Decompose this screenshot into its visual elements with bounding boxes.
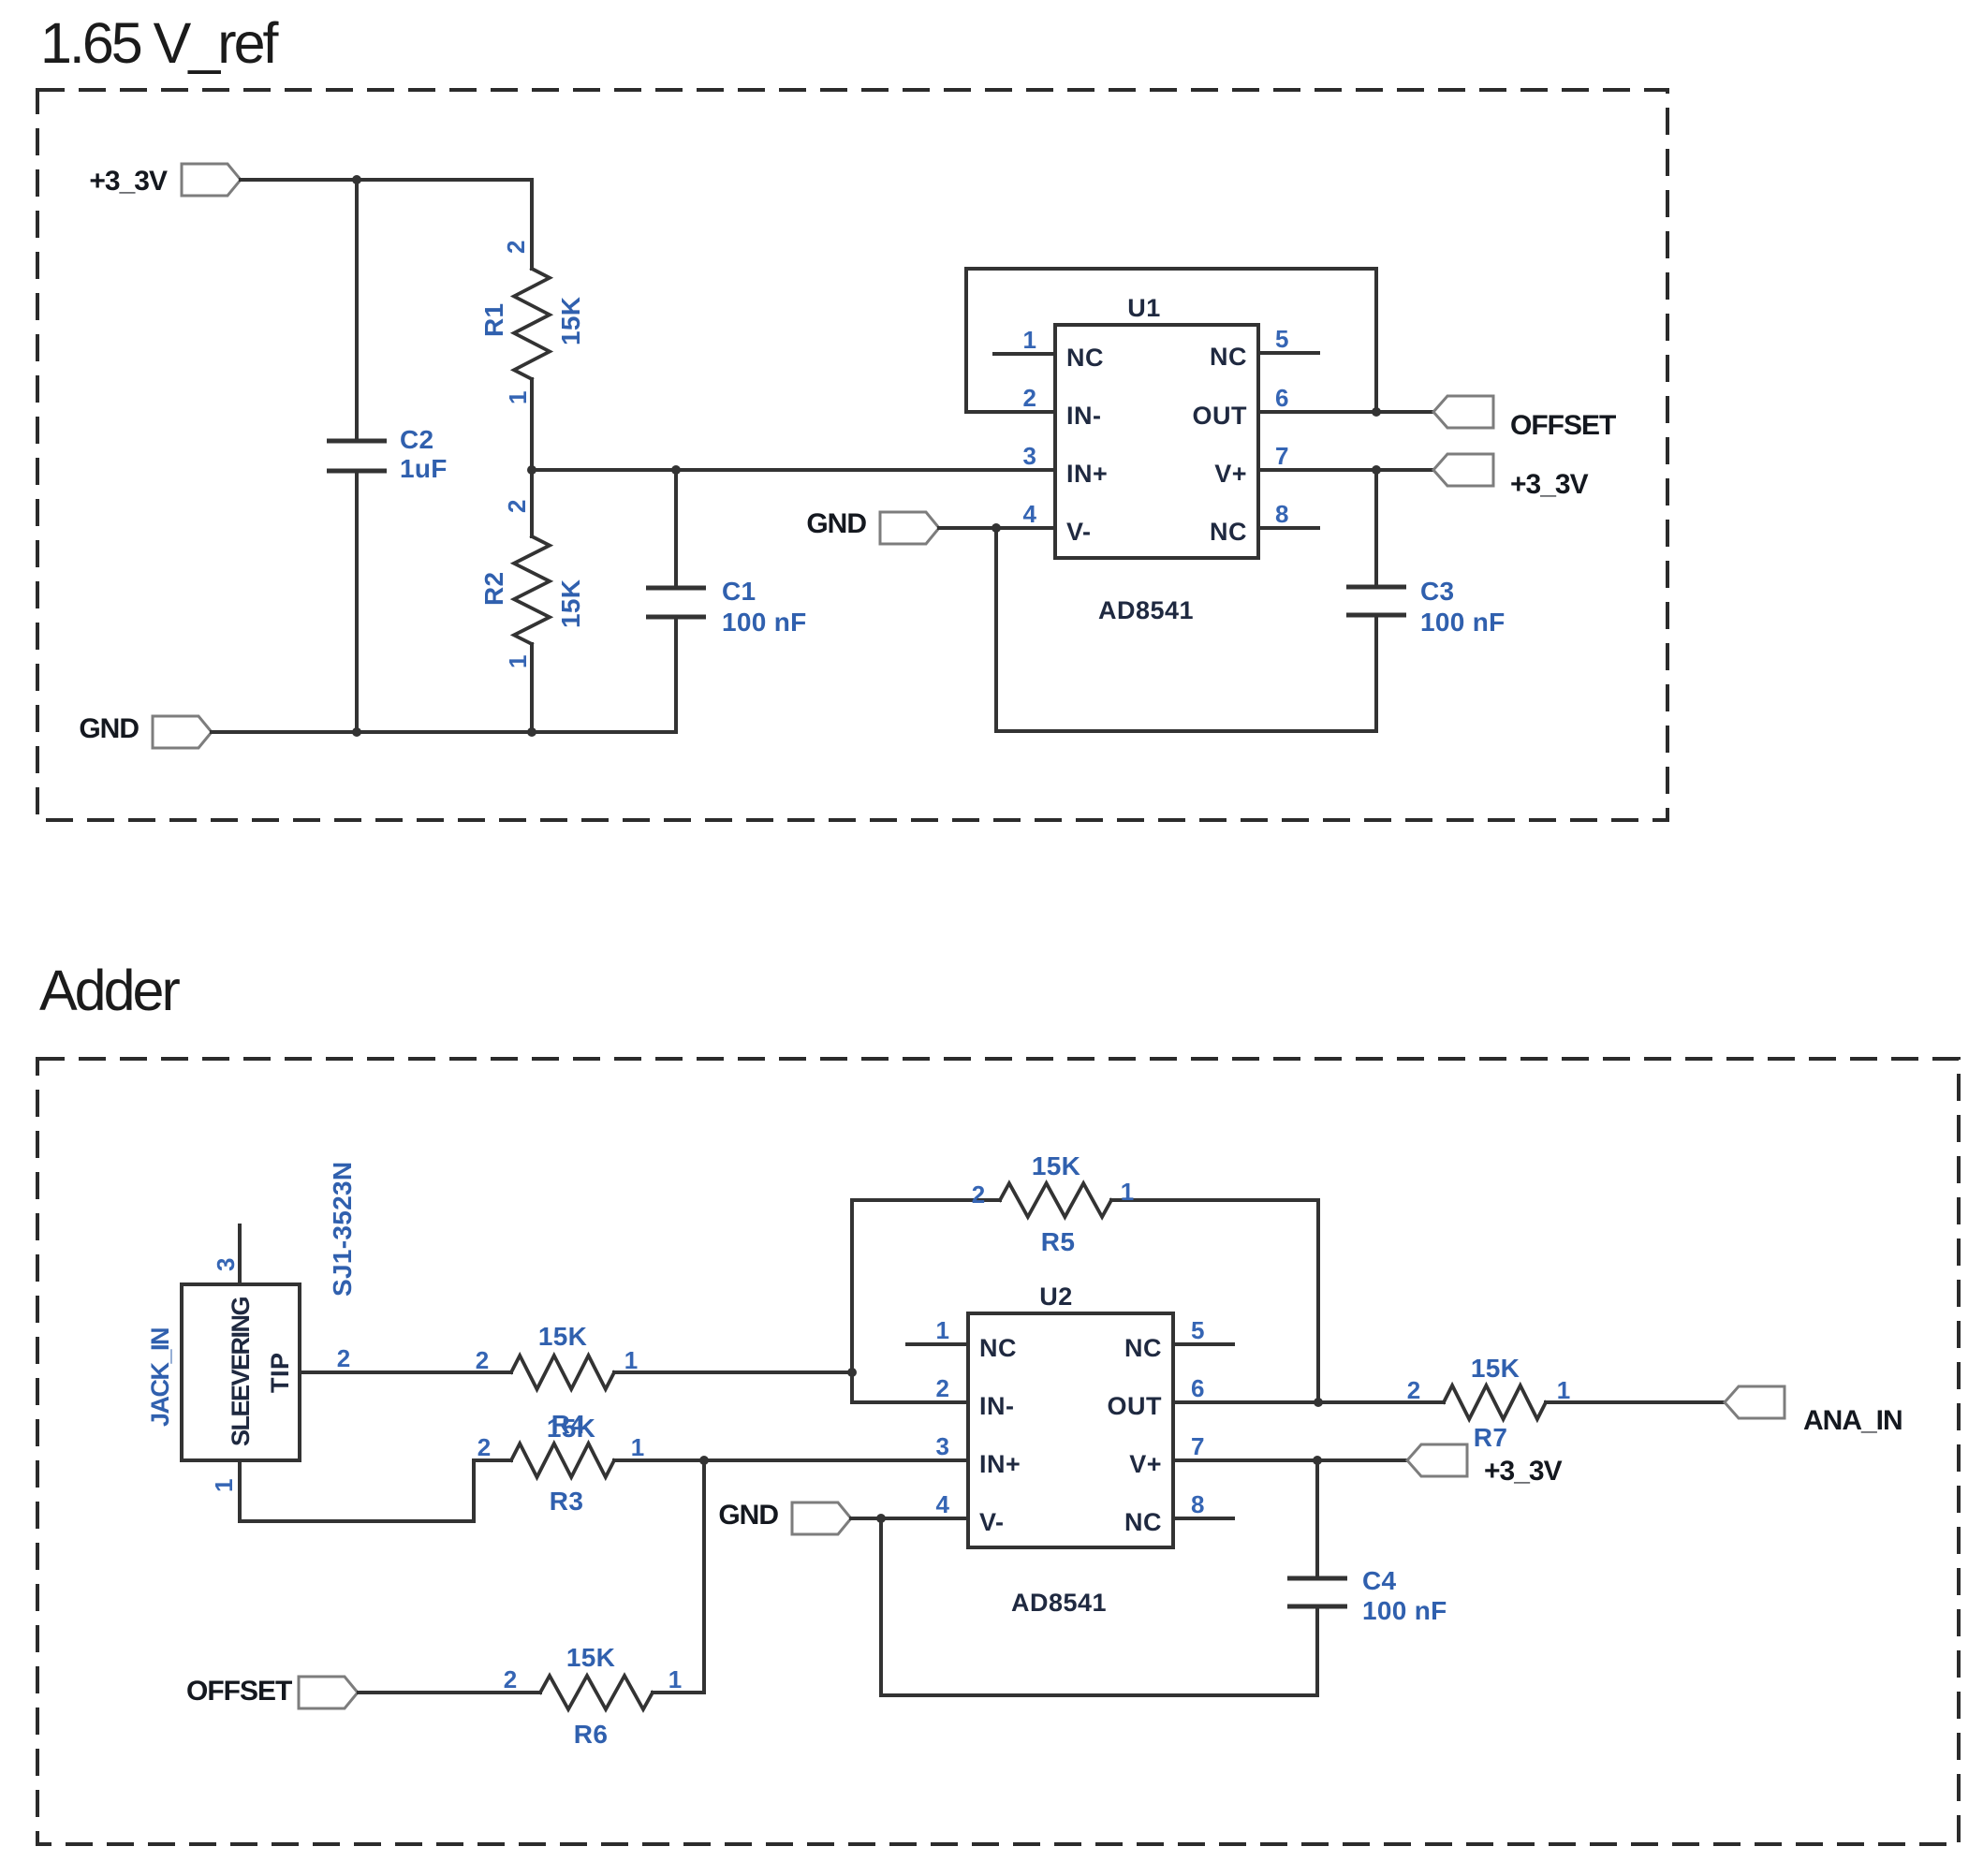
wire: V- bottom loop to C3 bbox=[996, 528, 1376, 731]
wire: C4 bottom lead bbox=[1315, 1606, 1319, 1695]
wire: V- bottom loop to C4 (adder) bbox=[881, 1518, 1317, 1695]
svg-text:NC: NC bbox=[1066, 344, 1104, 372]
junction: V- / bottom loop bbox=[991, 523, 1001, 533]
wire: GND rail bbox=[212, 730, 676, 734]
resistor R7 15K bbox=[1407, 1354, 1570, 1452]
svg-text:C3: C3 bbox=[1420, 577, 1454, 606]
wire: U1 feedback IN- to OUT loop bbox=[966, 269, 1376, 412]
svg-text:3: 3 bbox=[1023, 442, 1036, 470]
svg-text:1: 1 bbox=[936, 1316, 949, 1344]
svg-text:1: 1 bbox=[1121, 1178, 1134, 1206]
svg-text:+3_3V: +3_3V bbox=[89, 166, 168, 197]
svg-text:2: 2 bbox=[972, 1180, 985, 1209]
svg-text:OFFSET: OFFSET bbox=[1510, 410, 1616, 441]
junction: GND rail / R2 bbox=[527, 727, 536, 737]
wire: +3_3V rail bbox=[241, 178, 532, 182]
wire: jack TIP (pin 2) to R4 bbox=[300, 1344, 511, 1372]
svg-text:100 nF: 100 nF bbox=[722, 608, 807, 637]
svg-text:15K: 15K bbox=[538, 1322, 587, 1351]
svg-text:1: 1 bbox=[668, 1665, 682, 1693]
svg-text:IN-: IN- bbox=[1066, 402, 1102, 430]
wire: R6 riser to IN+ node bbox=[702, 1460, 706, 1693]
svg-text:7: 7 bbox=[1275, 442, 1288, 470]
junction: IN+ / R6 bbox=[699, 1456, 709, 1465]
port GND (adder) bbox=[718, 1500, 851, 1534]
svg-text:2: 2 bbox=[477, 1433, 491, 1461]
wire: R5 feedback loop left leg bbox=[852, 1200, 968, 1402]
svg-text:6: 6 bbox=[1275, 384, 1288, 412]
junction: GND rail / C2 bbox=[352, 727, 361, 737]
wire: C3 bottom lead bbox=[1374, 615, 1378, 731]
svg-text:R5: R5 bbox=[1041, 1227, 1075, 1256]
junction: OUT / feedback bbox=[1372, 407, 1381, 417]
resistor R5 15K bbox=[852, 1151, 1318, 1256]
wire: V+ to +3_3V port bbox=[1258, 468, 1433, 472]
wire: R5 feedback loop right leg bbox=[1316, 1200, 1320, 1402]
svg-text:15K: 15K bbox=[1032, 1151, 1080, 1180]
svg-text:R1: R1 bbox=[479, 303, 508, 337]
svg-text:+3_3V: +3_3V bbox=[1510, 469, 1589, 500]
svg-text:15K: 15K bbox=[566, 1643, 615, 1672]
svg-text:3: 3 bbox=[936, 1432, 949, 1460]
svg-text:2: 2 bbox=[476, 1346, 489, 1374]
svg-text:NC: NC bbox=[1124, 1334, 1162, 1362]
svg-text:2: 2 bbox=[503, 500, 531, 513]
svg-text:NC: NC bbox=[979, 1334, 1017, 1362]
svg-text:R7: R7 bbox=[1474, 1423, 1507, 1452]
resistor R2 15K bbox=[479, 470, 585, 732]
svg-text:NC: NC bbox=[1210, 518, 1247, 546]
junction: OUT / R5 feedback bbox=[1314, 1398, 1323, 1407]
wire: jack pin 1 to R3 bbox=[210, 1460, 511, 1521]
junction: V- / bottom loop (adder) bbox=[876, 1514, 886, 1523]
svg-text:C2: C2 bbox=[400, 425, 433, 454]
svg-text:2: 2 bbox=[337, 1344, 350, 1372]
svg-text:1: 1 bbox=[504, 391, 532, 404]
junction: R1/R2/mid-rail node bbox=[527, 465, 536, 475]
junction: C1 tap on mid rail bbox=[671, 465, 681, 475]
svg-text:3: 3 bbox=[212, 1258, 240, 1271]
wire: R3 to IN+ bbox=[614, 1458, 968, 1462]
wire: C1 bottom lead bbox=[674, 617, 678, 732]
svg-text:2: 2 bbox=[1407, 1376, 1420, 1404]
svg-text:1: 1 bbox=[631, 1433, 644, 1461]
wire: OUT to OFFSET port bbox=[1258, 410, 1433, 414]
svg-text:OFFSET: OFFSET bbox=[186, 1676, 292, 1707]
junction: V+ / C4 bbox=[1313, 1456, 1322, 1465]
svg-text:SLEEVERING: SLEEVERING bbox=[227, 1297, 255, 1446]
port ANA_IN bbox=[1725, 1386, 1902, 1436]
svg-text:C4: C4 bbox=[1362, 1566, 1397, 1595]
svg-text:15K: 15K bbox=[1471, 1354, 1520, 1383]
resistor R6 15K bbox=[504, 1643, 682, 1749]
svg-text:5: 5 bbox=[1191, 1316, 1204, 1344]
svg-text:V-: V- bbox=[979, 1508, 1005, 1536]
svg-text:R2: R2 bbox=[479, 572, 508, 606]
wire: C4 top lead bbox=[1315, 1460, 1319, 1578]
resistor R1 15K bbox=[479, 180, 585, 470]
wire: OFFSET to R6 bbox=[359, 1691, 540, 1694]
svg-text:AD8541: AD8541 bbox=[1098, 596, 1194, 624]
svg-text:1: 1 bbox=[1023, 326, 1036, 354]
svg-text:15K: 15K bbox=[556, 579, 585, 628]
junction: C2 tap on +3_3V rail bbox=[352, 175, 361, 184]
section title: 1.65 V_ref bbox=[40, 11, 280, 75]
capacitor C2 1uF bbox=[327, 425, 448, 483]
wire: jack pin 3 stub bbox=[212, 1225, 240, 1284]
svg-text:1: 1 bbox=[624, 1346, 638, 1374]
svg-text:JACK_IN: JACK_IN bbox=[146, 1328, 174, 1427]
port +3_3V (top block right) bbox=[1433, 454, 1589, 500]
capacitor C1 100 nF bbox=[646, 577, 807, 637]
resistor R4 15K bbox=[476, 1322, 638, 1443]
port +3_3V (top left) bbox=[89, 164, 241, 197]
wire: R7 to ANA_IN port bbox=[1546, 1400, 1725, 1404]
wire: C1 top lead bbox=[674, 470, 678, 588]
capacitor C3 100 nF bbox=[1346, 577, 1506, 637]
port GND (bottom left) bbox=[79, 713, 212, 748]
svg-text:GND: GND bbox=[806, 508, 866, 539]
port +3_3V (adder) bbox=[1407, 1444, 1563, 1487]
svg-text:V+: V+ bbox=[1129, 1450, 1162, 1478]
junction: R4 / R5 feedback bbox=[847, 1368, 857, 1377]
op-amp U2 AD8541 bbox=[907, 1282, 1233, 1617]
svg-text:OUT: OUT bbox=[1108, 1392, 1163, 1420]
svg-text:NC: NC bbox=[1124, 1508, 1162, 1536]
svg-text:1: 1 bbox=[504, 655, 532, 668]
capacitor C4 100 nF bbox=[1287, 1566, 1447, 1625]
svg-text:100 nF: 100 nF bbox=[1362, 1596, 1447, 1625]
svg-text:8: 8 bbox=[1191, 1490, 1204, 1518]
svg-text:1.65 V_ref: 1.65 V_ref bbox=[40, 11, 280, 75]
svg-text:2: 2 bbox=[1023, 384, 1036, 412]
svg-text:1uF: 1uF bbox=[400, 454, 448, 483]
svg-text:ANA_IN: ANA_IN bbox=[1803, 1405, 1902, 1436]
wire: C2 bottom lead bbox=[355, 471, 359, 732]
wire: R6 to riser bbox=[653, 1691, 704, 1694]
svg-text:V-: V- bbox=[1066, 518, 1092, 546]
svg-text:4: 4 bbox=[1023, 500, 1037, 528]
svg-text:2: 2 bbox=[502, 241, 530, 254]
dashed box: 1.65 V_ref block bbox=[37, 90, 1667, 820]
audio jack JACK_IN SJ1-3523N bbox=[146, 1162, 357, 1460]
section title: Adder bbox=[39, 959, 180, 1022]
svg-text:GND: GND bbox=[79, 713, 139, 744]
svg-text:SJ1-3523N: SJ1-3523N bbox=[328, 1162, 357, 1297]
svg-text:7: 7 bbox=[1191, 1432, 1204, 1460]
wire: U2 OUT to R7 bbox=[1173, 1400, 1444, 1404]
svg-text:TIP: TIP bbox=[266, 1352, 294, 1393]
port GND (mid, U1 V-) bbox=[806, 508, 939, 544]
svg-text:IN+: IN+ bbox=[1066, 460, 1108, 488]
svg-text:4: 4 bbox=[936, 1490, 950, 1518]
svg-text:OUT: OUT bbox=[1193, 402, 1248, 430]
wire: GND port to V- bbox=[939, 526, 1055, 530]
wire: GND port to U2 V- bbox=[851, 1517, 968, 1520]
svg-text:1: 1 bbox=[1557, 1376, 1570, 1404]
svg-text:2: 2 bbox=[504, 1665, 517, 1693]
dashed box: Adder block bbox=[37, 1059, 1959, 1844]
port OFFSET (adder input) bbox=[186, 1676, 358, 1708]
op-amp U1 AD8541 bbox=[994, 294, 1318, 624]
svg-text:V+: V+ bbox=[1214, 460, 1247, 488]
wire: C2 top lead bbox=[355, 180, 359, 441]
junction: V+ / C3 bbox=[1372, 465, 1381, 475]
svg-text:15K: 15K bbox=[547, 1414, 595, 1443]
svg-text:R6: R6 bbox=[574, 1720, 608, 1749]
svg-text:IN-: IN- bbox=[979, 1392, 1015, 1420]
svg-text:6: 6 bbox=[1191, 1374, 1204, 1402]
svg-text:U1: U1 bbox=[1127, 294, 1161, 322]
svg-text:GND: GND bbox=[718, 1500, 778, 1531]
svg-text:R3: R3 bbox=[550, 1487, 583, 1516]
svg-text:Adder: Adder bbox=[39, 959, 180, 1022]
svg-text:100 nF: 100 nF bbox=[1420, 608, 1506, 637]
svg-text:5: 5 bbox=[1275, 325, 1288, 353]
wire: U2 V+ to +3_3V port bbox=[1173, 1458, 1407, 1462]
svg-text:8: 8 bbox=[1275, 500, 1288, 528]
wire: R4 to IN- node bbox=[614, 1370, 852, 1374]
svg-text:+3_3V: +3_3V bbox=[1484, 1456, 1563, 1487]
svg-text:2: 2 bbox=[936, 1374, 949, 1402]
svg-text:U2: U2 bbox=[1039, 1282, 1073, 1311]
wire: C3 top lead bbox=[1374, 470, 1378, 587]
resistor R3 15K bbox=[477, 1433, 644, 1516]
svg-text:1: 1 bbox=[210, 1479, 238, 1492]
svg-text:NC: NC bbox=[1210, 343, 1247, 371]
svg-text:AD8541: AD8541 bbox=[1011, 1589, 1107, 1617]
wire: mid rail (1.65V node) to IN+ bbox=[532, 468, 1055, 472]
svg-text:C1: C1 bbox=[722, 577, 756, 606]
port OFFSET (output of V_ref block) bbox=[1433, 396, 1616, 441]
svg-text:15K: 15K bbox=[556, 297, 585, 345]
svg-text:IN+: IN+ bbox=[979, 1450, 1021, 1478]
